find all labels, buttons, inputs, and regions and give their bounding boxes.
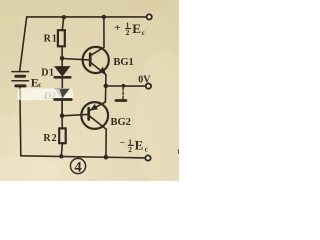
svg-text:−: −	[120, 137, 125, 147]
svg-text:0V: 0V	[138, 74, 151, 85]
svg-text:BG1: BG1	[113, 57, 133, 68]
svg-text:R2: R2	[43, 133, 57, 144]
svg-text:c: c	[145, 145, 148, 153]
svg-text:E: E	[132, 21, 141, 36]
svg-text:+: +	[114, 22, 120, 34]
svg-text:2: 2	[126, 28, 130, 37]
svg-text:D1: D1	[41, 68, 54, 79]
svg-text:c: c	[142, 29, 145, 37]
svg-text:R1: R1	[44, 34, 58, 45]
svg-text:E: E	[135, 138, 144, 153]
svg-text:c: c	[38, 81, 41, 89]
svg-text:2: 2	[128, 145, 132, 154]
svg-text:BG2: BG2	[111, 117, 131, 128]
svg-text:4: 4	[74, 159, 81, 175]
